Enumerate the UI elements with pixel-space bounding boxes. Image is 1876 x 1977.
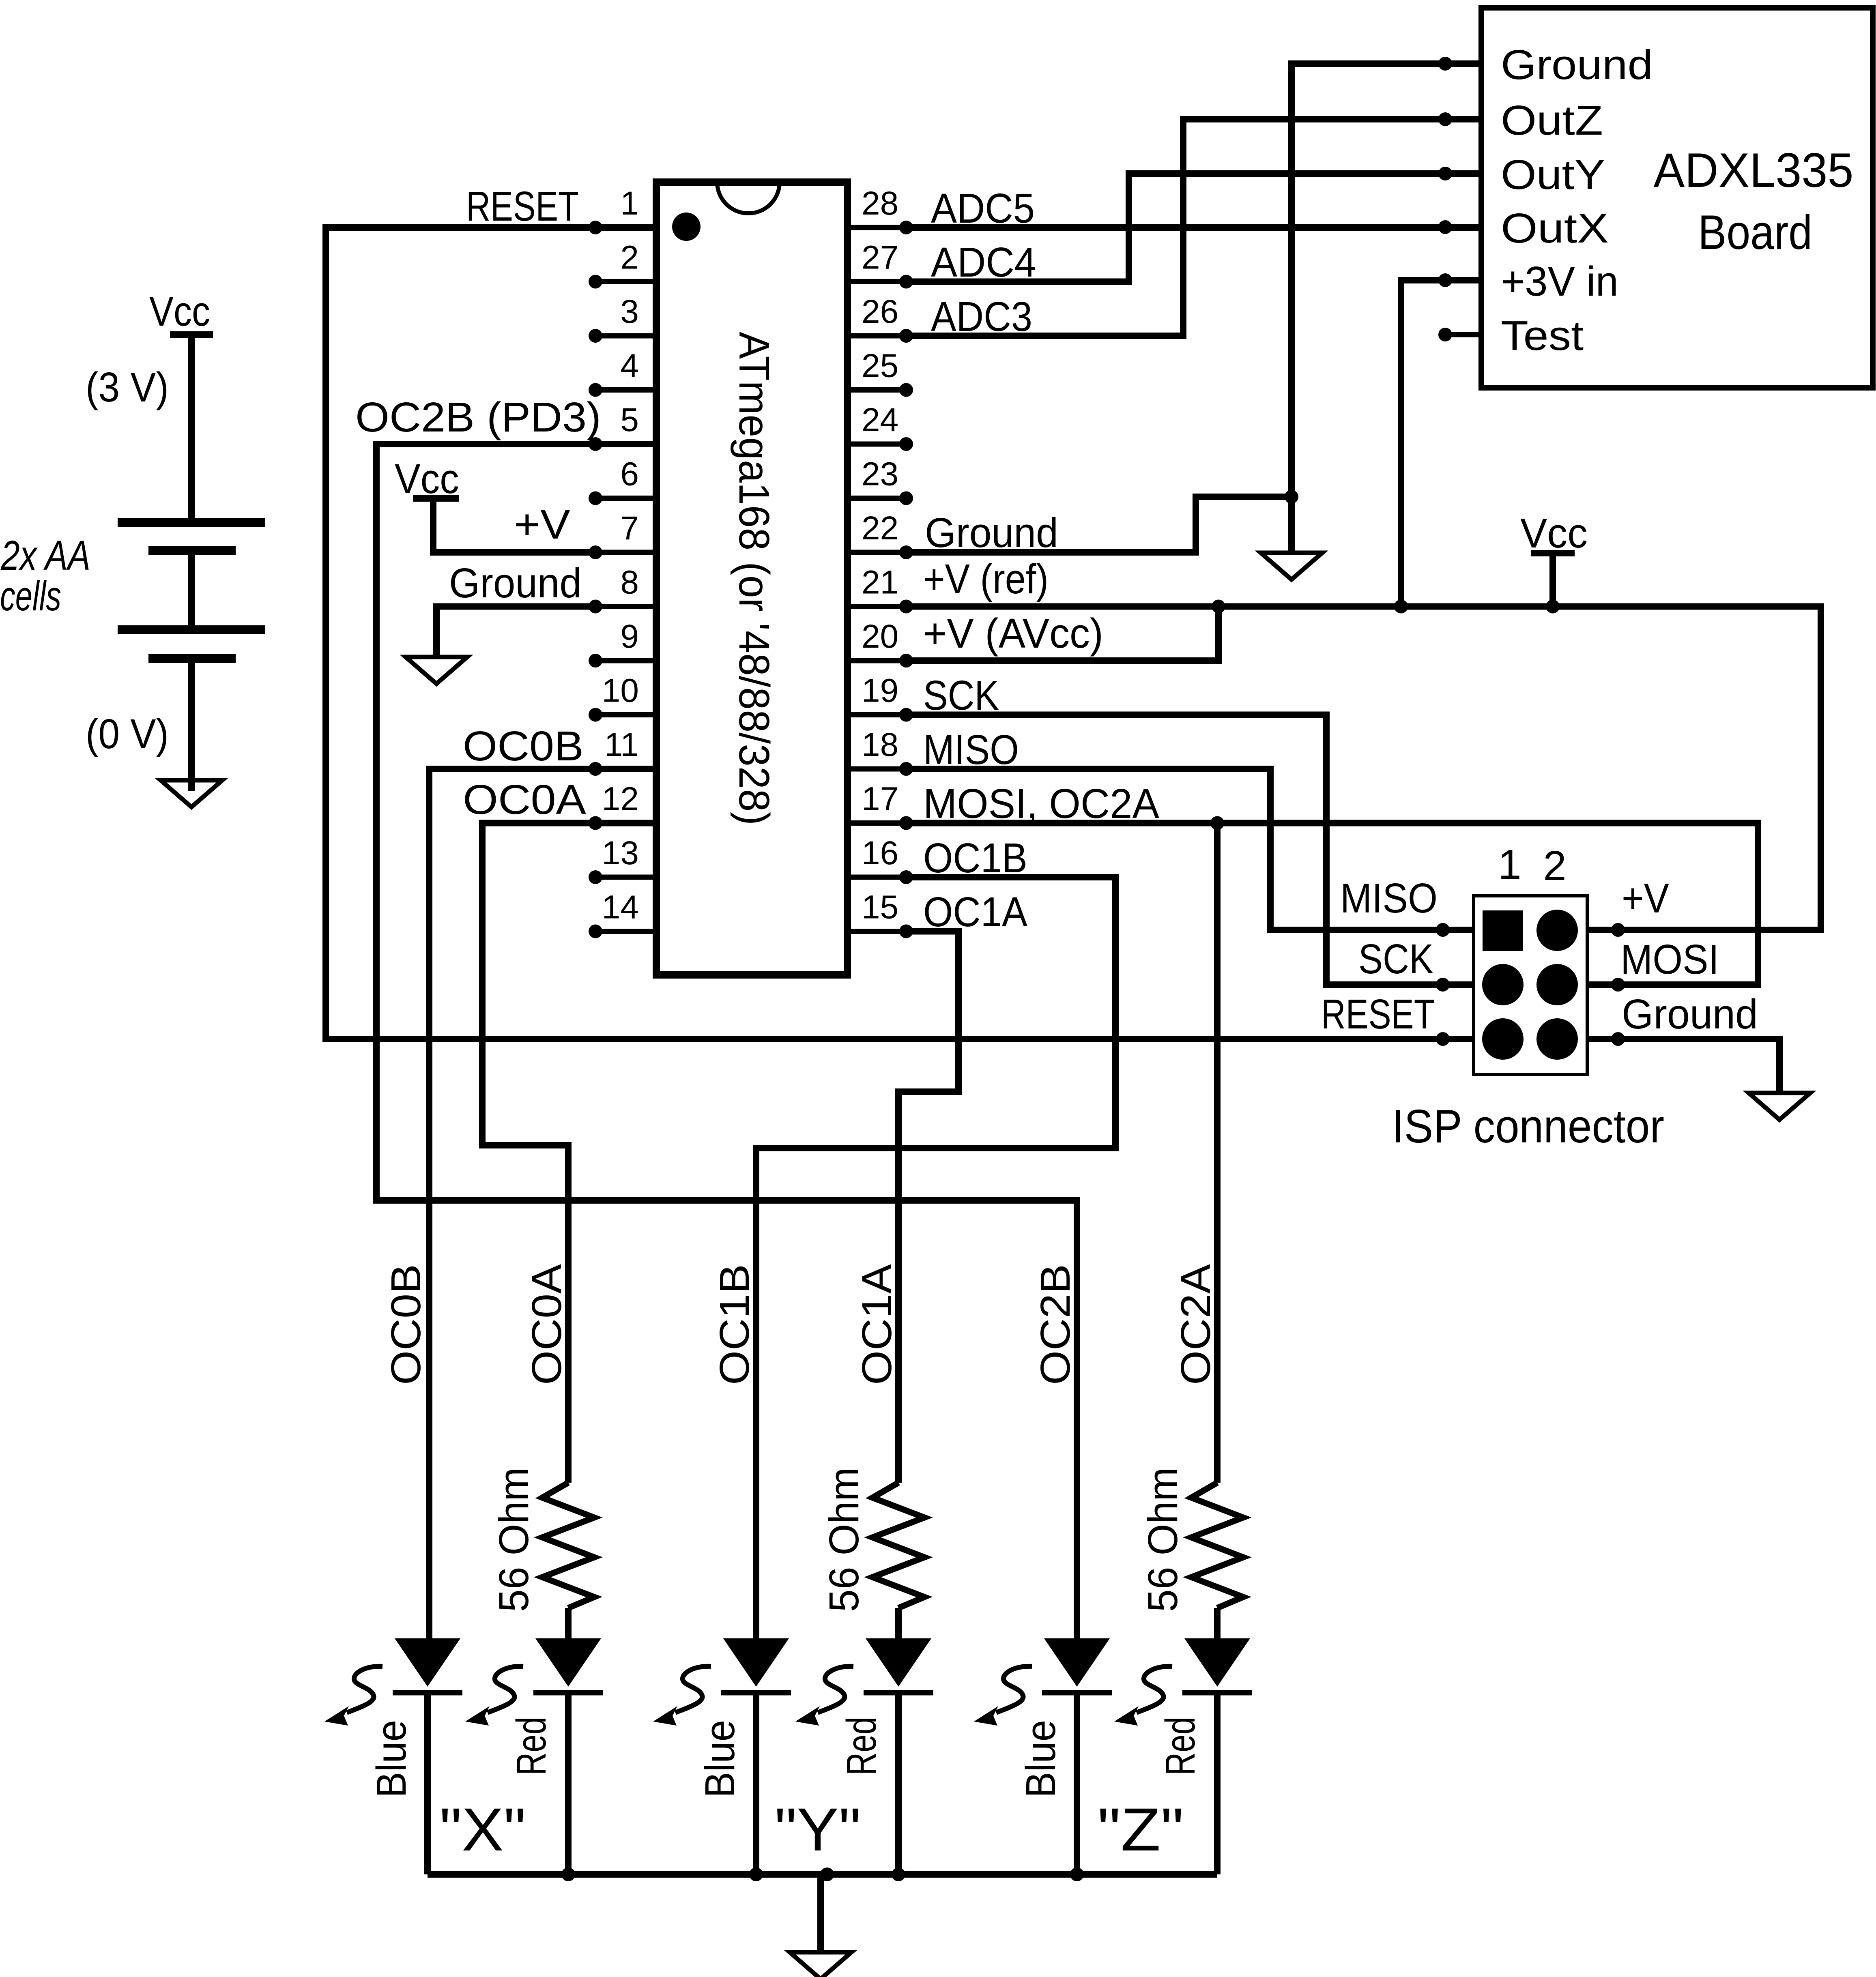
svg-text:Board: Board	[1698, 205, 1812, 260]
svg-text:23: 23	[862, 456, 898, 493]
svg-text:"Z": "Z"	[1098, 1795, 1184, 1863]
svg-text:OC0B: OC0B	[463, 723, 584, 769]
svg-text:18: 18	[862, 726, 898, 763]
svg-text:56 Ohm: 56 Ohm	[821, 1467, 867, 1612]
svg-text:56 Ohm: 56 Ohm	[1139, 1467, 1186, 1612]
svg-text:22: 22	[862, 510, 898, 547]
svg-text:5: 5	[620, 401, 639, 438]
svg-text:ISP connector: ISP connector	[1392, 1100, 1664, 1153]
svg-text:ADC4: ADC4	[931, 239, 1036, 285]
svg-text:27: 27	[862, 239, 898, 276]
svg-text:19: 19	[862, 672, 898, 709]
svg-text:cells: cells	[0, 573, 61, 619]
svg-text:SCK: SCK	[923, 672, 999, 719]
svg-text:MISO: MISO	[923, 726, 1019, 773]
svg-text:Blue: Blue	[696, 1720, 743, 1798]
svg-text:"Y": "Y"	[775, 1795, 861, 1863]
svg-text:(0 V): (0 V)	[86, 711, 169, 757]
svg-text:21: 21	[862, 564, 898, 601]
svg-text:Ground: Ground	[449, 560, 582, 606]
svg-text:MISO: MISO	[1340, 875, 1438, 921]
svg-text:Test: Test	[1501, 312, 1584, 359]
svg-text:RESET: RESET	[466, 183, 579, 230]
svg-text:2: 2	[1543, 842, 1566, 889]
svg-text:OC2B (PD3): OC2B (PD3)	[355, 394, 601, 440]
svg-text:56 Ohm: 56 Ohm	[490, 1467, 537, 1612]
svg-text:11: 11	[604, 726, 639, 763]
svg-text:2x AA: 2x AA	[0, 532, 90, 579]
svg-text:Ground: Ground	[1501, 41, 1653, 88]
svg-text:OC1B: OC1B	[711, 1264, 758, 1385]
svg-text:+V: +V	[1622, 875, 1669, 921]
svg-text:1: 1	[1498, 841, 1521, 888]
svg-text:+V (ref): +V (ref)	[923, 556, 1049, 602]
svg-text:OC0A: OC0A	[463, 776, 586, 823]
svg-text:SCK: SCK	[1358, 936, 1433, 982]
svg-text:13: 13	[602, 835, 639, 872]
svg-text:25: 25	[862, 348, 898, 384]
svg-text:Red: Red	[508, 1717, 554, 1775]
svg-text:20: 20	[862, 618, 898, 655]
svg-text:15: 15	[862, 889, 898, 926]
svg-text:ADC5: ADC5	[931, 185, 1035, 232]
svg-text:+3V in: +3V in	[1501, 258, 1618, 305]
svg-text:OC1A: OC1A	[853, 1264, 900, 1385]
svg-text:OC0B: OC0B	[383, 1264, 429, 1385]
svg-text:Vcc: Vcc	[395, 455, 459, 502]
svg-text:OutZ: OutZ	[1501, 97, 1603, 144]
svg-text:RESET: RESET	[1321, 991, 1435, 1037]
svg-text:4: 4	[620, 348, 639, 384]
svg-text:Vcc: Vcc	[1520, 510, 1588, 556]
svg-text:+V: +V	[514, 501, 570, 547]
svg-text:+V (AVcc): +V (AVcc)	[923, 610, 1103, 657]
svg-text:7: 7	[620, 510, 639, 547]
svg-text:OC2A: OC2A	[1172, 1264, 1219, 1385]
svg-text:12: 12	[602, 781, 639, 818]
svg-text:MOSI, OC2A: MOSI, OC2A	[923, 780, 1159, 827]
svg-text:"X": "X"	[440, 1795, 526, 1863]
svg-text:OC1A: OC1A	[923, 889, 1027, 935]
svg-text:Blue: Blue	[1017, 1720, 1064, 1798]
svg-text:Red: Red	[838, 1717, 885, 1775]
svg-text:8: 8	[620, 564, 639, 601]
svg-text:ADXL335: ADXL335	[1654, 143, 1854, 197]
svg-text:Red: Red	[1157, 1717, 1203, 1775]
svg-text:6: 6	[620, 456, 639, 493]
svg-text:OutX: OutX	[1501, 205, 1609, 251]
svg-text:OutY: OutY	[1501, 151, 1605, 198]
svg-text:9: 9	[620, 618, 639, 655]
svg-text:MOSI: MOSI	[1620, 936, 1719, 983]
svg-text:Ground: Ground	[1622, 991, 1758, 1037]
svg-text:ATmega168 (or '48/88/328): ATmega168 (or '48/88/328)	[730, 332, 778, 825]
svg-text:OC1B: OC1B	[923, 835, 1027, 881]
svg-text:26: 26	[862, 293, 898, 330]
svg-text:16: 16	[862, 835, 898, 872]
svg-text:14: 14	[602, 889, 639, 926]
svg-text:Ground: Ground	[925, 509, 1058, 556]
svg-text:OC2B: OC2B	[1032, 1264, 1079, 1385]
svg-text:Blue: Blue	[368, 1720, 415, 1798]
svg-text:3: 3	[620, 293, 639, 330]
svg-text:28: 28	[862, 185, 898, 222]
svg-text:(3 V): (3 V)	[86, 364, 169, 410]
svg-text:2: 2	[620, 239, 639, 276]
svg-text:24: 24	[862, 401, 898, 438]
svg-text:17: 17	[862, 781, 898, 818]
svg-text:1: 1	[620, 185, 639, 222]
svg-text:Vcc: Vcc	[149, 288, 210, 335]
svg-text:OC0A: OC0A	[523, 1264, 570, 1385]
svg-text:10: 10	[602, 672, 639, 709]
svg-text:ADC3: ADC3	[931, 293, 1032, 340]
